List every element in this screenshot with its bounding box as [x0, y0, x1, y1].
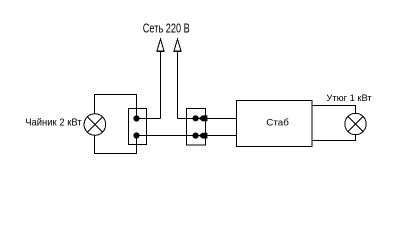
svg-text:Утюг 1 кВт: Утюг 1 кВт — [326, 93, 372, 104]
svg-text:Сеть 220 В: Сеть 220 В — [143, 22, 190, 36]
svg-text:Стаб: Стаб — [266, 118, 289, 129]
svg-text:Чайник 2 кВт: Чайник 2 кВт — [25, 118, 82, 129]
